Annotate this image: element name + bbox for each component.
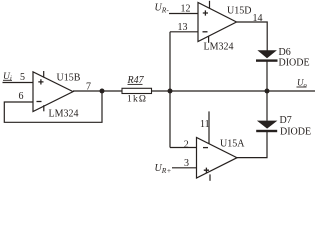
svg-text:1kΩ: 1kΩ (127, 95, 147, 105)
svg-text:7: 7 (86, 82, 91, 93)
svg-text:13: 13 (178, 22, 188, 33)
svg-text:6: 6 (19, 91, 24, 102)
svg-text:11: 11 (200, 119, 210, 130)
svg-text:DIODE: DIODE (280, 127, 311, 138)
svg-text:D7: D7 (280, 115, 292, 126)
svg-text:U15D: U15D (227, 6, 251, 17)
svg-text:D6: D6 (279, 47, 291, 58)
svg-text:Ui: Ui (3, 72, 12, 83)
svg-text:5: 5 (20, 72, 25, 83)
svg-text:LM324: LM324 (204, 42, 234, 53)
svg-text:U15B: U15B (57, 73, 81, 84)
svg-text:U15A: U15A (220, 139, 245, 150)
svg-text:14: 14 (253, 13, 263, 24)
svg-text:LM324: LM324 (49, 109, 79, 120)
svg-text:2: 2 (184, 139, 189, 150)
svg-text:12: 12 (181, 4, 191, 15)
svg-text:3: 3 (184, 158, 189, 169)
svg-text:DIODE: DIODE (279, 57, 310, 68)
